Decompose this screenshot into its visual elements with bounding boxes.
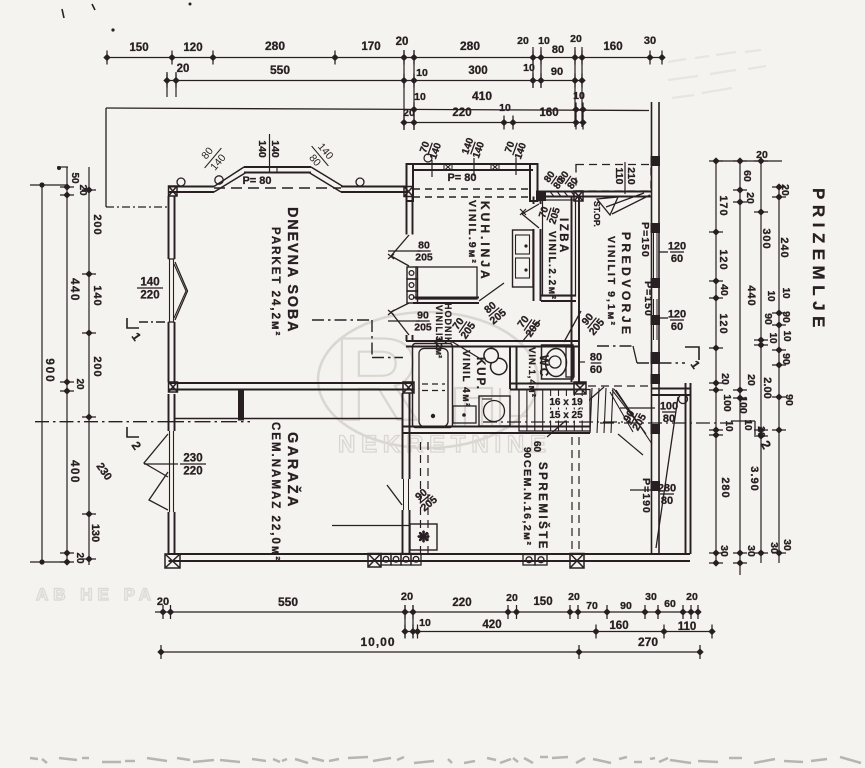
east wall predvorje: [651, 102, 653, 554]
small cabinet: [453, 406, 476, 423]
kitchen table: [416, 267, 477, 299]
izba door swing: [522, 204, 539, 214]
bay window living room: [214, 173, 246, 193]
svg-text:P= 80: P= 80: [447, 172, 476, 184]
svg-text:230: 230: [183, 453, 202, 465]
kup door 70/205: [451, 341, 479, 358]
svg-text:IZBA: IZBA: [557, 218, 569, 255]
bottom row E: [155, 611, 700, 613]
washing machine: [479, 396, 510, 426]
svg-text:30: 30: [645, 591, 657, 603]
svg-text:10: 10: [780, 287, 791, 299]
hodnik bottom / bath top wall: [406, 340, 516, 342]
svg-text:130: 130: [89, 524, 101, 542]
svg-text:420: 420: [482, 619, 501, 631]
svg-text:20: 20: [755, 426, 767, 438]
izba bottom wall: [541, 295, 576, 297]
svg-text:AB HE PA: AB HE PA: [36, 585, 156, 604]
kitchen sink unit: [513, 230, 534, 287]
living room window left (140/220): [169, 259, 171, 322]
svg-text:70: 70: [586, 600, 598, 612]
svg-text:2.00: 2.00: [761, 377, 773, 398]
izba inner box: [543, 200, 576, 296]
svg-text:90: 90: [551, 66, 563, 78]
kitchen bottom wall: [413, 297, 479, 299]
svg-text:170: 170: [361, 41, 380, 53]
svg-text:30: 30: [745, 545, 757, 557]
svg-text:120: 120: [717, 313, 729, 334]
svg-text:120: 120: [717, 249, 729, 270]
svg-text:20: 20: [719, 373, 731, 385]
svg-text:90: 90: [780, 353, 792, 365]
right dim top line: [713, 160, 782, 162]
right dim col R2: [739, 161, 741, 575]
watermark glyph blocks: [455, 388, 528, 426]
svg-text:200: 200: [91, 214, 103, 235]
bottom edge scan marks: [30, 757, 861, 763]
garage door left (230/220): [169, 431, 171, 512]
tick extensions rows A-D: [532, 47, 534, 88]
svg-text:VIN.1,4м²: VIN.1,4м²: [526, 347, 537, 398]
wc left wall: [509, 347, 511, 390]
svg-text:80: 80: [590, 352, 602, 364]
izba top wall: [538, 191, 580, 193]
svg-text:240: 240: [778, 237, 790, 258]
svg-text:900: 900: [43, 358, 55, 383]
svg-text:WC: WC: [537, 355, 549, 378]
predvorje top wall: [580, 191, 651, 193]
living room door 80/205: [391, 235, 409, 256]
dimension row C: [106, 108, 649, 111]
right dim col R4: [778, 187, 780, 563]
svg-text:20: 20: [177, 63, 190, 75]
watermark logo circle: [318, 312, 538, 448]
kitchen dim 70/140 right: [502, 137, 529, 161]
svg-text:90: 90: [521, 447, 532, 459]
svg-text:220: 220: [183, 466, 202, 478]
svg-text:NEKRETNINE: NEKRETNINE: [338, 431, 553, 458]
svg-text:120: 120: [668, 241, 686, 253]
living/kitchen wall: [406, 197, 408, 235]
svg-text:280: 280: [265, 39, 285, 53]
svg-text:90: 90: [780, 311, 792, 323]
dimension row A top: [107, 57, 662, 59]
svg-text:40: 40: [718, 284, 730, 296]
svg-text:90: 90: [783, 394, 795, 406]
svg-text:30: 30: [644, 35, 656, 47]
svg-text:80: 80: [418, 240, 430, 252]
predvorje wc door 90/205: [564, 311, 581, 342]
svg-text:SPREMIŠTE: SPREMIŠTE: [536, 462, 549, 551]
right dim col R1: [715, 161, 717, 563]
svg-text:10: 10: [419, 617, 431, 629]
svg-text:110: 110: [678, 621, 697, 633]
svg-text:20: 20: [74, 378, 85, 390]
wall living/garage: [169, 382, 415, 384]
svg-text:10: 10: [723, 420, 734, 432]
svg-text:200: 200: [91, 356, 103, 377]
washbasin: [482, 345, 508, 377]
svg-text:3.90: 3.90: [748, 466, 760, 491]
svg-text:160: 160: [539, 107, 558, 119]
top wall living room: [169, 186, 215, 188]
kitchen dashed wall lines: [413, 188, 533, 190]
svg-text:50: 50: [69, 172, 80, 184]
stairs main flight: [519, 390, 590, 432]
svg-text:550: 550: [270, 63, 290, 77]
svg-text:ST.OP.: ST.OP.: [592, 201, 602, 227]
left dim col 200/140/200: [88, 167, 90, 565]
circle mark O at bay: [215, 176, 223, 184]
entry canopy dashed: [576, 165, 651, 192]
svg-text:PRIZEMLJE: PRIZEMLJE: [809, 188, 828, 333]
entry steps: [597, 193, 650, 215]
left top small line: [57, 166, 68, 168]
svg-text:60: 60: [671, 321, 683, 333]
svg-text:80: 80: [552, 44, 564, 56]
svg-text:KUP.: KUP.: [474, 357, 486, 391]
svg-text:300: 300: [760, 228, 772, 249]
svg-text:140: 140: [256, 140, 268, 158]
spremiste dashed columns: [420, 442, 422, 554]
svg-text:20: 20: [745, 374, 757, 386]
svg-text:90: 90: [417, 310, 429, 322]
svg-text:300: 300: [468, 65, 487, 77]
bay dim 140/80: [302, 138, 339, 175]
svg-text:16 x 19: 16 x 19: [549, 397, 583, 408]
svg-text:140: 140: [91, 285, 103, 306]
living room door 90/205 lower: [391, 303, 409, 312]
svg-text:P=150: P=150: [639, 222, 651, 258]
svg-text:60: 60: [590, 364, 602, 376]
svg-text:30: 30: [718, 545, 730, 557]
kitchen dim 70/140 left: [417, 137, 444, 161]
door at stairs: [618, 434, 643, 455]
svg-text:10,00: 10,00: [360, 635, 395, 649]
section marker 2 right: [731, 420, 755, 422]
garage right wall: [402, 393, 404, 479]
wc bottom wall: [510, 383, 586, 385]
outer wall left: [168, 196, 170, 259]
svg-text:20: 20: [779, 184, 791, 196]
bay dim 80/140: [195, 140, 232, 177]
svg-text:10: 10: [765, 290, 776, 302]
svg-text:60: 60: [741, 170, 753, 182]
svg-text:440: 440: [68, 278, 80, 302]
svg-text:205: 205: [415, 252, 433, 264]
garage inner top line: [174, 418, 402, 420]
svg-text:KUH.INJA: KUH.INJA: [478, 201, 492, 282]
junction boxes top: [169, 186, 178, 196]
bottom wall: [169, 553, 691, 555]
svg-text:160: 160: [603, 41, 622, 53]
svg-text:410: 410: [472, 89, 492, 103]
bathtub: [413, 344, 453, 428]
svg-text:20: 20: [517, 35, 529, 47]
svg-text:120: 120: [668, 309, 686, 321]
svg-text:P=190: P=190: [640, 478, 652, 514]
svg-text:❋: ❋: [417, 529, 430, 546]
svg-text:20: 20: [401, 591, 413, 603]
svg-text:210: 210: [625, 167, 637, 185]
stairs lower wall: [510, 426, 590, 428]
svg-text:400: 400: [68, 460, 80, 484]
svg-text:20: 20: [157, 596, 169, 608]
svg-text:150: 150: [129, 42, 148, 54]
left dim col 440/400: [66, 167, 68, 565]
svg-text:90: 90: [762, 313, 774, 325]
porch walls: [651, 388, 691, 390]
svg-text:10: 10: [767, 332, 778, 344]
svg-text:DNEVNA SOBA: DNEVNA SOBA: [284, 207, 300, 333]
svg-text:10: 10: [781, 330, 792, 342]
section line 1 inner: [312, 319, 372, 321]
drain box: [410, 524, 437, 550]
garage pier: [238, 390, 244, 421]
svg-text:3,2м²: 3,2м²: [434, 336, 444, 358]
svg-text:20: 20: [396, 36, 409, 48]
svg-text:10: 10: [499, 102, 511, 114]
svg-text:140: 140: [140, 277, 159, 289]
svg-text:150: 150: [533, 596, 552, 608]
svg-text:10: 10: [538, 35, 550, 47]
kitchen window band top: [413, 163, 533, 165]
section marker 1 left: [127, 318, 139, 328]
bath bottom wall: [403, 426, 510, 428]
svg-text:20: 20: [744, 192, 756, 204]
svg-text:CEM.N.16,2м²: CEM.N.16,2м²: [521, 460, 533, 546]
svg-text:10: 10: [573, 90, 585, 102]
svg-text:280: 280: [719, 477, 731, 498]
hodnik door 70/205: [522, 320, 540, 342]
svg-text:170: 170: [717, 195, 729, 216]
svg-text:90: 90: [620, 600, 632, 612]
right dim col R3: [760, 161, 762, 563]
svg-text:10: 10: [523, 62, 535, 74]
svg-text:P= 80: P= 80: [242, 175, 271, 187]
svg-text:220: 220: [140, 290, 159, 302]
bay dashed wall line: [214, 187, 341, 189]
svg-text:20: 20: [686, 591, 698, 603]
bay tick marks: [276, 166, 278, 173]
svg-text:550: 550: [278, 595, 298, 609]
svg-text:VINIL.2.2м²: VINIL.2.2м²: [546, 231, 557, 300]
svg-text:VINIL 4м²: VINIL 4м²: [460, 350, 471, 408]
svg-text:20: 20: [506, 592, 518, 604]
svg-text:140: 140: [269, 140, 281, 158]
porch diagonal: [656, 397, 678, 548]
svg-text:PARKET 24,2м²: PARKET 24,2м²: [269, 227, 281, 337]
svg-text:270: 270: [638, 635, 658, 649]
svg-text:10: 10: [416, 67, 428, 79]
wc top wall: [510, 340, 578, 342]
kitchen dim 140/140 mid: [460, 136, 487, 160]
svg-text:CEM.NAMAZ 22,0м²: CEM.NAMAZ 22,0м²: [269, 422, 281, 562]
svg-text:15 x 25: 15 x 25: [549, 410, 583, 421]
svg-text:VINIL.9м²: VINIL.9м²: [466, 200, 478, 265]
svg-text:220: 220: [452, 107, 471, 119]
svg-text:120: 120: [183, 42, 202, 54]
izba right wall: [571, 197, 573, 383]
faint bleedthrough top-right: [668, 50, 766, 98]
top-left specks: [62, 9, 64, 18]
svg-text:60: 60: [664, 598, 676, 610]
toilet: [542, 345, 574, 379]
stairs flight 2: [590, 388, 592, 433]
section marker 1 right: [685, 347, 699, 360]
bottom row G: [161, 651, 700, 653]
svg-text:100: 100: [660, 401, 678, 413]
bottom row F: [405, 631, 712, 633]
svg-text:205: 205: [414, 322, 432, 334]
dimension row B: [167, 80, 582, 82]
svg-text:100: 100: [721, 394, 733, 412]
svg-text:160: 160: [609, 620, 628, 632]
left bracket line: [105, 108, 107, 207]
chimney boxes: [407, 267, 418, 279]
svg-text:VINILIT 9,1м²: VINILIT 9,1м²: [605, 236, 617, 327]
garage door 90/205: [387, 485, 402, 505]
section marker 2 left: [127, 427, 139, 437]
svg-text:PREDVORJE: PREDVORJE: [619, 232, 633, 338]
svg-text:100: 100: [737, 396, 749, 414]
svg-text:20: 20: [568, 591, 580, 603]
kitchen/izba divider: [533, 197, 535, 205]
svg-text:110: 110: [613, 168, 625, 185]
svg-text:P=150: P=150: [642, 281, 654, 317]
svg-text:80: 80: [661, 495, 673, 507]
svg-text:10: 10: [414, 91, 426, 103]
svg-text:30: 30: [781, 539, 793, 551]
kitchen door 80/205: [479, 283, 504, 301]
svg-text:280: 280: [460, 39, 480, 53]
svg-text:220: 220: [452, 597, 471, 609]
garage shelf line: [332, 525, 410, 527]
izba dim 80/80: [542, 169, 567, 191]
stairs dashed top: [588, 385, 650, 387]
left dim col 900: [41, 185, 43, 562]
section line 2 dashdot: [35, 421, 168, 423]
svg-text:60: 60: [671, 253, 683, 265]
svg-text:280: 280: [658, 483, 676, 495]
dimension row D: [404, 122, 583, 124]
svg-text:20: 20: [570, 33, 582, 45]
svg-text:20: 20: [74, 552, 85, 564]
svg-text:440: 440: [745, 285, 757, 306]
svg-text:20: 20: [403, 107, 415, 119]
svg-text:GARAŽA: GARAŽA: [284, 432, 302, 509]
